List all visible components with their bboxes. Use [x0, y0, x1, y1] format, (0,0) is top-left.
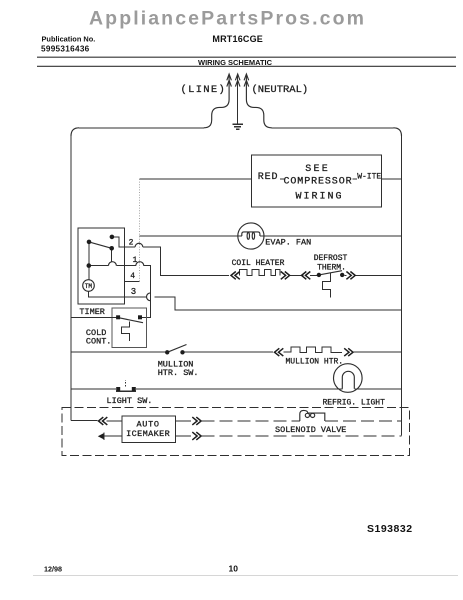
svg-text:WIRING SCHEMATIC: WIRING SCHEMATIC — [198, 58, 273, 67]
svg-text:COIL HEATER: COIL HEATER — [232, 259, 285, 268]
svg-text:SOLENOID VALVE: SOLENOID VALVE — [275, 425, 346, 435]
svg-text:(NEUTRAL): (NEUTRAL) — [252, 84, 309, 96]
svg-text:TM: TM — [85, 283, 93, 290]
svg-text:CONT.: CONT. — [86, 337, 112, 347]
svg-text:2: 2 — [129, 238, 134, 247]
svg-text:TIMER: TIMER — [79, 307, 105, 317]
svg-text:EVAP. FAN: EVAP. FAN — [265, 237, 311, 247]
svg-text:AUTO: AUTO — [137, 419, 160, 429]
svg-text:COMPRESSOR: COMPRESSOR — [284, 177, 353, 188]
svg-text:4: 4 — [130, 272, 135, 281]
svg-text:MULLION HTR.: MULLION HTR. — [286, 358, 344, 367]
svg-text:Publication No.: Publication No. — [42, 35, 96, 44]
svg-text:LIGHT SW.: LIGHT SW. — [107, 396, 153, 406]
svg-text:W-ITE: W-ITE — [357, 173, 381, 182]
svg-text:3: 3 — [131, 287, 136, 297]
svg-text:DEFROST: DEFROST — [314, 254, 348, 263]
svg-text:10: 10 — [229, 564, 239, 574]
svg-text:HTR. SW.: HTR. SW. — [158, 368, 199, 378]
svg-text:THERM.: THERM. — [317, 263, 346, 272]
svg-text:(LINE): (LINE) — [181, 84, 227, 96]
svg-text:1: 1 — [133, 256, 138, 265]
svg-text:AppliancePartsPros.com: AppliancePartsPros.com — [89, 8, 366, 30]
svg-text:ICEMAKER: ICEMAKER — [126, 429, 170, 439]
svg-text:MRT16CGE: MRT16CGE — [212, 34, 263, 44]
svg-text:WIRING: WIRING — [296, 192, 344, 203]
svg-text:SEE: SEE — [305, 164, 330, 175]
svg-text:S193832: S193832 — [367, 523, 413, 535]
svg-text:12/98: 12/98 — [44, 565, 62, 574]
svg-text:5995316436: 5995316436 — [41, 45, 90, 54]
svg-text:RED: RED — [258, 172, 279, 183]
svg-text:REFRIG. LIGHT: REFRIG. LIGHT — [323, 399, 386, 408]
